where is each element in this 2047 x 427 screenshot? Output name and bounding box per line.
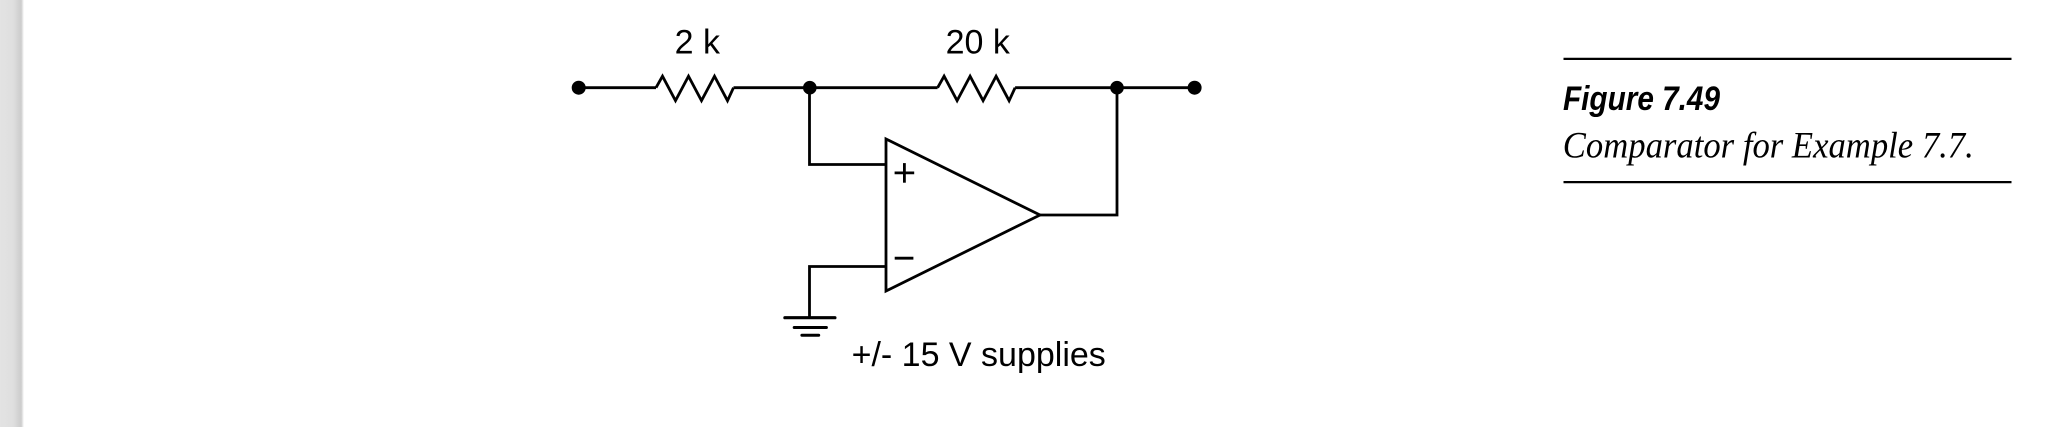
svg-text:20 k: 20 k <box>946 24 1011 62</box>
svg-text:Figure 7.49: Figure 7.49 <box>1563 80 1721 118</box>
svg-text:2 k: 2 k <box>675 24 721 62</box>
svg-text:Comparator for Example 7.7.: Comparator for Example 7.7. <box>1563 126 1974 167</box>
svg-text:+/- 15 V supplies: +/- 15 V supplies <box>852 336 1106 374</box>
